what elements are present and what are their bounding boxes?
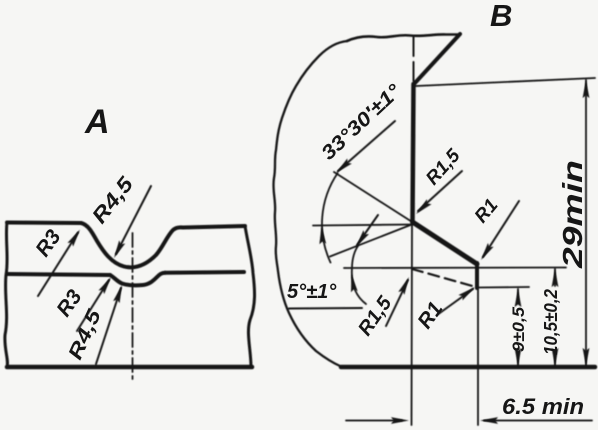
- dimension line 10.5 lower part: [554, 356, 556, 366]
- view B bottom edge: [341, 365, 595, 370]
- arrow R1.5 lower: [398, 276, 412, 295]
- svg-text:5°±1°: 5°±1°: [287, 281, 337, 303]
- arrow R1.5 upper: [414, 199, 432, 216]
- dashed alternate profile line: [412, 269, 476, 287]
- view B vertical edge: [413, 84, 414, 222]
- arrow 33deg leader: [334, 159, 352, 176]
- view A left break edge: [5, 222, 8, 367]
- view B short vertical edge: [475, 263, 479, 288]
- extension line vertical through V1 V2: [411, 222, 414, 425]
- svg-text:B: B: [490, 0, 512, 33]
- view B top break line: [347, 34, 460, 41]
- arc of 33deg dimension: [322, 173, 338, 262]
- leader R1.5 lower: [386, 280, 408, 326]
- view A middle dip under groove: [110, 273, 165, 285]
- arrow 29min top: [583, 80, 590, 98]
- arrowheads: [67, 80, 589, 424]
- arrow R1 upper: [478, 243, 493, 262]
- dimension leader R3 upper: [38, 233, 78, 297]
- view A top edge left: [7, 221, 81, 226]
- leader R1.5 upper: [418, 171, 462, 211]
- leader of 5deg arrow: [357, 215, 378, 245]
- arrow 10.5 top: [552, 269, 559, 287]
- extension line horizontal 9dim: [477, 286, 529, 289]
- arrow R3 lower: [99, 275, 114, 294]
- dimension line 9 lower part: [517, 353, 519, 366]
- arrow R3 upper: [67, 228, 82, 247]
- arrow 6.5 right: [480, 417, 498, 424]
- arrow 6.5 left: [391, 417, 409, 424]
- svg-text:10,5±0,2: 10,5±0,2: [541, 289, 561, 355]
- leader of 33deg arrow: [338, 121, 395, 171]
- shelf line of 5deg label: [289, 307, 362, 310]
- dimension line 10.5 upper part: [554, 269, 556, 286]
- view B break boundary blob: [273, 41, 347, 367]
- svg-text:6.5 min: 6.5 min: [502, 394, 584, 419]
- dimension line 6.5min right: [484, 420, 592, 422]
- arrow 9 bottom: [515, 348, 522, 366]
- arrow R4.5 upper: [111, 240, 125, 259]
- extension line 5deg slope from V1: [330, 224, 413, 257]
- leader R1 upper: [483, 201, 519, 257]
- extension line vertical from lower corner: [477, 288, 479, 425]
- extension line horizontal through V2: [344, 267, 566, 270]
- view B top bevel edge: [414, 34, 460, 84]
- dimension line 29min: [585, 80, 587, 366]
- extension line 33deg through V1: [334, 172, 413, 223]
- dimension leader R4.5 upper: [116, 186, 151, 254]
- arrow 5deg leader: [353, 230, 369, 249]
- view A top edge right: [183, 226, 245, 228]
- arrow 10.5 bottom: [552, 348, 559, 366]
- view A groove profile (R3 corners, R4.5 bottom): [81, 223, 183, 267]
- dimension leader R4.5 lower: [96, 288, 121, 364]
- arrow R4.5 lower: [113, 284, 125, 303]
- extension line 29min top: [416, 78, 595, 86]
- svg-text:9±0,5: 9±0,5: [509, 306, 528, 352]
- arrow R1 lower: [458, 284, 477, 300]
- dimension line 6.5min left: [346, 420, 402, 422]
- view A right break edge: [245, 226, 255, 367]
- dimension leader R3 lower: [77, 280, 109, 331]
- view A middle edge left: [7, 274, 110, 275]
- svg-text:29min: 29min: [557, 160, 588, 269]
- arc of 5deg dimension: [352, 246, 366, 304]
- arrow 9 top: [515, 289, 522, 307]
- extension line horizontal through V1: [313, 225, 413, 226]
- view A bottom edge: [7, 365, 252, 370]
- svg-text:A: A: [84, 103, 110, 141]
- view B top centerline: [413, 37, 415, 84]
- view A middle edge right: [165, 270, 244, 275]
- arrow 29min bottom: [583, 348, 590, 366]
- view A centerline: [132, 233, 134, 382]
- arrow 5deg arc: [348, 273, 358, 292]
- view B 33deg sloped edge: [413, 222, 478, 264]
- arrow 33deg arc at horizontal: [318, 226, 326, 244]
- leader R1 lower: [437, 289, 473, 315]
- dimension line 9 upper part: [517, 289, 519, 301]
